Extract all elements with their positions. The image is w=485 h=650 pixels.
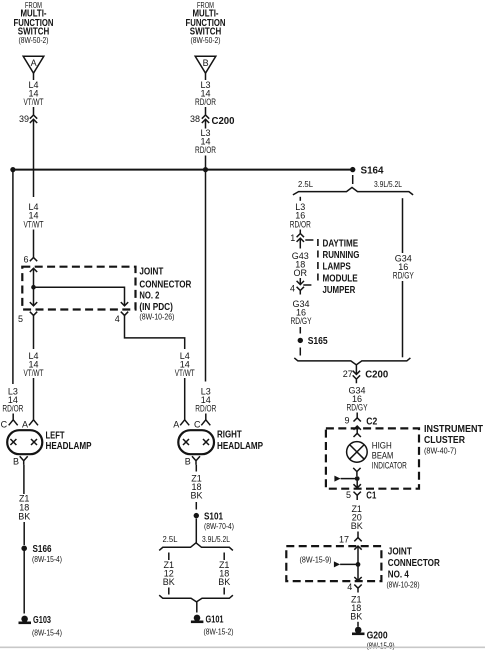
wire label G43 18 OR xyxy=(292,251,309,278)
internal wire xyxy=(357,546,359,581)
wire to JC4 pin 17 xyxy=(357,532,359,538)
wire label L3 14 RD/OR xyxy=(195,128,216,155)
svg-text:B: B xyxy=(185,457,191,467)
svg-text:BK: BK xyxy=(18,512,30,522)
joint connector no.2 box xyxy=(22,267,135,310)
lamp terminal fork top xyxy=(354,433,361,437)
wire label Z1 18 BK xyxy=(218,560,230,587)
wire 2.5L branch stub xyxy=(299,197,301,201)
high beam indicator label xyxy=(372,440,407,470)
wire xyxy=(23,522,25,545)
wire from pin 38 xyxy=(205,119,207,128)
wire pin 1 down xyxy=(299,238,301,248)
left headlamp lamp X right xyxy=(31,439,37,445)
engine split labels xyxy=(298,179,402,189)
internal junction dot xyxy=(356,562,361,567)
wire label L4 14 VT/WT above JC2 xyxy=(24,202,44,229)
wire label L3 16 RD/OR xyxy=(290,202,311,229)
svg-text:27: 27 xyxy=(343,369,353,379)
internal bus wire xyxy=(34,287,125,306)
svg-text:4: 4 xyxy=(290,284,295,294)
joint connector no.4 label xyxy=(387,546,441,589)
wire into cluster xyxy=(356,426,358,433)
wire to left headlamp pin A xyxy=(33,378,35,420)
joint connector no.4 box xyxy=(286,546,381,581)
pin 5 fork below box xyxy=(18,312,37,324)
svg-text:2.5L: 2.5L xyxy=(298,179,313,189)
splice S164 xyxy=(350,165,384,177)
wire S164 stub down xyxy=(352,175,354,184)
svg-text:(8W-15-4): (8W-15-4) xyxy=(32,628,62,638)
joint connector no.2 label xyxy=(139,267,192,322)
DRL leader dashed line xyxy=(317,239,319,283)
far left wire L3 down xyxy=(12,170,14,384)
wire to brace xyxy=(195,519,197,543)
lamp terminal fork bottom xyxy=(353,468,360,476)
svg-text:LEFT: LEFT xyxy=(46,431,65,442)
svg-text:NO. 2: NO. 2 xyxy=(139,291,159,302)
wire to ground xyxy=(357,622,359,627)
svg-text:4: 4 xyxy=(115,314,120,324)
svg-text:(8W-40-7): (8W-40-7) xyxy=(424,445,457,455)
svg-text:G101: G101 xyxy=(206,614,224,626)
svg-text:1: 1 xyxy=(290,233,295,243)
svg-text:3.9L/5.2L: 3.9L/5.2L xyxy=(374,179,402,189)
connector pin 6 fork xyxy=(23,255,37,265)
svg-text:HIGH: HIGH xyxy=(372,440,392,450)
svg-text:HEADLAMP: HEADLAMP xyxy=(46,441,92,452)
wire label L4 14 VT/WT xyxy=(175,351,195,378)
wire xyxy=(33,107,35,115)
splice S101 xyxy=(194,510,235,531)
svg-text:6: 6 xyxy=(23,255,28,265)
svg-text:CLUSTER: CLUSTER xyxy=(424,435,466,446)
wire label Z1 18 BK xyxy=(18,494,30,522)
svg-text:RD/GY: RD/GY xyxy=(291,316,312,326)
wire pin B down xyxy=(23,465,25,494)
wire to bus xyxy=(205,156,207,170)
brace close merge xyxy=(159,595,233,602)
left headlamp pin B fork xyxy=(13,456,28,466)
svg-text:HEADLAMP: HEADLAMP xyxy=(217,441,263,452)
splice S166 xyxy=(21,543,62,564)
leader tick pin 1 xyxy=(305,239,313,241)
svg-text:BK: BK xyxy=(218,577,230,587)
svg-text:LAMPS: LAMPS xyxy=(323,262,352,273)
svg-text:A: A xyxy=(22,420,28,430)
instrument cluster box xyxy=(326,428,419,488)
svg-text:C200: C200 xyxy=(212,115,235,127)
svg-text:RIGHT: RIGHT xyxy=(217,430,242,441)
svg-text:CONNECTOR: CONNECTOR xyxy=(388,558,441,569)
svg-text:(8W-15-2): (8W-15-2) xyxy=(204,627,234,637)
wire from triangle B xyxy=(205,73,207,80)
svg-text:RD/OR: RD/OR xyxy=(290,219,311,229)
svg-text:(8W-10-26): (8W-10-26) xyxy=(139,312,174,322)
right headlamp label xyxy=(217,430,263,453)
wire to JC2 pin 6 xyxy=(33,230,35,258)
svg-text:5: 5 xyxy=(18,314,23,324)
internal junction dot xyxy=(31,285,36,290)
pin 4 arrow inside box xyxy=(354,577,361,581)
wire label G34 16 RD/GY xyxy=(291,299,312,326)
wire xyxy=(205,107,207,115)
pin 6 arrow inside box xyxy=(30,268,37,272)
wire to ground xyxy=(196,602,198,613)
left headlamp lamp X left xyxy=(10,439,16,445)
wire label L3 14 RD/OR xyxy=(195,387,216,414)
svg-text:BK: BK xyxy=(163,577,175,587)
svg-text:VT/WT: VT/WT xyxy=(24,219,44,229)
leader tick pin 4 xyxy=(303,284,311,286)
wire pin B down xyxy=(195,465,197,472)
svg-text:BK: BK xyxy=(190,491,202,501)
junction dot center xyxy=(203,167,208,172)
svg-text:A: A xyxy=(173,420,179,430)
svg-text:RD/GY: RD/GY xyxy=(393,270,414,280)
svg-text:B: B xyxy=(13,457,19,467)
wire xyxy=(402,281,404,357)
wire to ground xyxy=(23,551,25,614)
wire label G34 16 RD/GY xyxy=(393,253,414,280)
wire to C2 xyxy=(356,413,358,418)
svg-text:BEAM: BEAM xyxy=(372,450,394,460)
right headlamp lamp X right xyxy=(203,439,209,445)
terminal fork pin A right xyxy=(180,420,189,426)
connector C200 pin 27 xyxy=(343,365,389,384)
brace open split DRL xyxy=(293,187,413,195)
svg-text:JUMPER: JUMPER xyxy=(323,285,356,296)
svg-text:A: A xyxy=(31,58,37,68)
svg-text:C200: C200 xyxy=(365,369,388,381)
svg-text:INDICATOR: INDICATOR xyxy=(372,461,407,471)
wire to DRL pin 1 xyxy=(299,230,301,234)
svg-text:38: 38 xyxy=(190,114,200,124)
wire to C1 xyxy=(356,481,358,488)
svg-text:(8W-50-2): (8W-50-2) xyxy=(19,35,49,45)
wire 3.9L/5.2L branch xyxy=(402,198,404,253)
svg-text:G103: G103 xyxy=(33,614,51,626)
wire xyxy=(223,588,225,595)
terminal fork pin C right xyxy=(201,420,210,426)
svg-text:RD/OR: RD/OR xyxy=(195,145,216,155)
svg-text:39: 39 xyxy=(19,114,29,124)
pin 5 arrow inside box xyxy=(30,302,37,306)
right headlamp body xyxy=(178,430,214,454)
DRL connector pin 1 fork xyxy=(290,233,304,243)
svg-text:B: B xyxy=(203,58,209,68)
svg-text:BK: BK xyxy=(351,521,363,531)
svg-text:RD/OR: RD/OR xyxy=(195,403,216,413)
svg-text:RD/GY: RD/GY xyxy=(347,402,368,412)
wire label G34 16 RD/GY xyxy=(347,386,368,413)
svg-text:JOINT: JOINT xyxy=(388,546,412,557)
wire label Z1 12 BK xyxy=(163,560,175,587)
wire label L3 14 RD/OR xyxy=(195,80,216,107)
svg-text:S164: S164 xyxy=(361,165,384,177)
ground G101 xyxy=(191,614,234,637)
off-page connector triangle A xyxy=(23,56,44,73)
dashed wire right 3.9L/5.2L xyxy=(223,553,225,561)
svg-text:RD/OR: RD/OR xyxy=(195,97,216,107)
wire from pin 39 down across bus xyxy=(33,119,35,197)
wire label Z1 18 BK xyxy=(350,595,362,622)
center wire L3 below bus xyxy=(205,170,207,382)
wire pin 5 down xyxy=(33,315,35,349)
wire to DRL pin 4 xyxy=(299,278,301,285)
wire xyxy=(195,502,197,510)
svg-text:MODULE: MODULE xyxy=(323,273,358,284)
svg-text:(8W-50-2): (8W-50-2) xyxy=(191,35,221,45)
connector C1 pin 5 xyxy=(346,484,376,501)
svg-text:VT/WT: VT/WT xyxy=(175,368,195,378)
wire label Z1 18 BK xyxy=(190,474,202,501)
node B label: FROM MULTI-FUNCTION SWITCH (8W-50-2) xyxy=(186,0,226,45)
wire from triangle A xyxy=(33,73,35,80)
dashed wire left 2.5L xyxy=(168,553,170,561)
brace open split xyxy=(159,543,233,551)
left headlamp body xyxy=(7,430,42,454)
svg-text:5: 5 xyxy=(346,490,351,500)
svg-text:VT/WT: VT/WT xyxy=(24,368,44,378)
engine split labels xyxy=(163,534,231,544)
high beam indicator lamp xyxy=(347,442,368,463)
svg-text:(8W-15-9): (8W-15-9) xyxy=(300,554,332,564)
right headlamp lamp X left xyxy=(183,439,189,445)
terminal fork pin A xyxy=(29,420,38,426)
pin 17 arrow inside box xyxy=(354,546,361,550)
svg-text:S165: S165 xyxy=(308,335,328,347)
pin 4 arrow inside box xyxy=(121,302,128,306)
internal wire xyxy=(33,268,35,306)
svg-text:3.9L/5.2L: 3.9L/5.2L xyxy=(202,534,230,544)
svg-text:(8W-10-28): (8W-10-28) xyxy=(387,580,420,590)
svg-text:(8W-15-9): (8W-15-9) xyxy=(367,640,395,650)
svg-text:INSTRUMENT: INSTRUMENT xyxy=(424,424,483,435)
svg-text:4: 4 xyxy=(347,582,352,592)
ground G200 xyxy=(352,627,395,650)
instrument cluster label xyxy=(424,424,483,455)
wire xyxy=(168,588,170,595)
off-page connector triangle B xyxy=(195,56,216,73)
svg-text:(8W-15-4): (8W-15-4) xyxy=(32,554,62,564)
wire to right headlamp pin A xyxy=(184,378,186,420)
wire pin 4 jog right xyxy=(125,315,185,349)
svg-text:OR: OR xyxy=(294,268,308,278)
svg-text:RD/OR: RD/OR xyxy=(2,403,23,413)
connector C200 pin 38 xyxy=(190,114,209,124)
wire S165 to brace xyxy=(299,348,301,356)
terminal fork pin C xyxy=(9,420,18,426)
branch arrow to other circuits xyxy=(334,476,356,482)
dashed connector line C200 xyxy=(39,121,187,123)
pin 4 fork below box xyxy=(115,312,128,324)
bus wire (splice run) xyxy=(13,169,351,171)
svg-text:VT/WT: VT/WT xyxy=(24,97,44,107)
svg-text:17: 17 xyxy=(339,535,349,545)
svg-text:RUNNING: RUNNING xyxy=(323,250,360,261)
daytime running lamps module jumper label xyxy=(323,239,360,296)
wire label L3 14 RD/OR xyxy=(2,387,23,414)
svg-text:JOINT: JOINT xyxy=(139,267,163,278)
wire label L4 14 VT/WT xyxy=(24,351,44,378)
svg-text:C1: C1 xyxy=(366,490,376,502)
svg-text:C: C xyxy=(194,420,201,430)
junction dot xyxy=(355,476,360,481)
svg-text:BK: BK xyxy=(350,612,362,622)
DRL connector pin 4 arrow xyxy=(290,281,304,295)
svg-text:DAYTIME: DAYTIME xyxy=(323,239,359,250)
wire to left headlamp pin C xyxy=(12,414,14,420)
wire to right headlamp pin C xyxy=(205,414,207,420)
wire to S165 xyxy=(299,327,301,334)
splice S165 xyxy=(298,335,328,347)
svg-text:9: 9 xyxy=(344,416,349,426)
node A label: FROM MULTI-FUNCTION SWITCH (8W-50-2) xyxy=(14,0,54,45)
ground G103 xyxy=(19,614,63,638)
connector pin 17 fork xyxy=(339,535,362,545)
connector C2 pin 9 xyxy=(344,416,377,430)
branch arrow to other circuits xyxy=(334,561,357,567)
page border bottom xyxy=(0,646,485,648)
svg-text:C: C xyxy=(1,420,8,430)
wire label Z1 20 BK xyxy=(351,504,363,531)
pin 4 fork below box xyxy=(347,582,361,593)
svg-text:2.5L: 2.5L xyxy=(163,534,178,544)
svg-text:(8W-70-4): (8W-70-4) xyxy=(204,521,234,531)
right headlamp pin B fork xyxy=(185,456,200,466)
connector C200 pin 39 xyxy=(19,114,37,124)
wire label L4 14 VT/WT xyxy=(24,80,44,107)
junction dot left xyxy=(10,167,15,172)
brace close merge DRL xyxy=(294,358,410,365)
left headlamp label xyxy=(46,431,92,453)
svg-text:CONNECTOR: CONNECTOR xyxy=(139,279,192,290)
svg-text:C2: C2 xyxy=(366,416,377,428)
